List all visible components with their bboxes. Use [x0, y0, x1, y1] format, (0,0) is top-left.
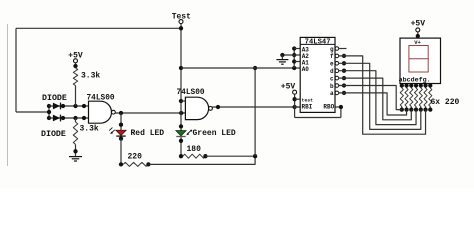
node (junction above ground) [73, 149, 77, 153]
resistor R3 220 [123, 162, 148, 166]
wire (display pin b lead) [406, 84, 408, 89]
pin a bubble (active-low) [335, 91, 339, 95]
node (Green LED cathode junction) [179, 139, 183, 143]
svg-text:d: d [330, 68, 334, 75]
pin g bubble (active-low) [335, 47, 339, 51]
node (resistor R5 top junction) [400, 83, 404, 87]
node (segment d junction) [342, 69, 346, 73]
node (A-input bus at A0) [292, 66, 296, 70]
ground (below R2) [69, 156, 82, 158]
pin c bubble (active-low) [335, 76, 339, 80]
wire (supply to R1) [75, 63, 77, 68]
node (lower row after diode D2) [61, 116, 65, 120]
node (segment e junction) [342, 61, 346, 65]
wire (left vertical feedback wire) [15, 28, 17, 112]
wire (display pin c lead) [410, 84, 412, 89]
node (resistor R8 top junction) [414, 83, 418, 87]
display DS1 7-segment (body) [400, 38, 441, 83]
wire (A1 pin stub) [294, 61, 300, 63]
node (Red LED cathode junction) [119, 136, 123, 140]
svg-text:a: a [330, 90, 334, 97]
op-amp U1 74LS00 NAND gate [89, 101, 112, 123]
node (RBO corner junction) [339, 105, 343, 109]
label Green LED (emission arrow) [187, 131, 190, 134]
wire (lower diode row to R2) [75, 118, 77, 122]
node (gate U1 input B junction) [82, 116, 86, 120]
pin e bubble (active-low) [335, 62, 339, 66]
wire (diode anode bus vertical) [48, 106, 50, 118]
node (junction above display) [416, 34, 420, 38]
svg-text:Green LED: Green LED [193, 129, 236, 138]
wire (R2 to ground) [75, 144, 77, 156]
svg-text:3.3k: 3.3k [80, 125, 99, 134]
LED D4 Green LED [176, 131, 186, 136]
wire (display pin f lead) [425, 84, 427, 89]
wire (R1 to upper diode row) [75, 86, 77, 107]
node (resistor R9 bottom junction) [419, 107, 423, 111]
node (return riser junction) [253, 154, 257, 158]
svg-text:74LS47: 74LS47 [305, 38, 331, 46]
terminal Test (open circle) [179, 20, 183, 24]
svg-text:220: 220 [128, 153, 143, 162]
pin b bubble (active-low) [335, 84, 339, 88]
LED D3 Red LED [116, 130, 126, 135]
node (segment c junction) [342, 76, 346, 80]
diode D2 (lower DIODE) [53, 115, 60, 122]
diode D1 (upper DIODE) [53, 103, 60, 110]
node (A2 junction) [292, 53, 296, 57]
wire (lower diode row to gate U1 input B) [49, 117, 89, 119]
wire (resistor R11 bottom lead) [429, 107, 431, 110]
node (lower row at pull-down R2) [73, 116, 77, 120]
wire (RBO loop right riser) [340, 107, 342, 118]
wire (segment b route to display) [339, 86, 402, 110]
node (U2 input A junction) [179, 99, 183, 103]
resistor R10 220 (segment f) [424, 88, 427, 107]
node (resistor R11 bottom junction) [428, 107, 432, 111]
wire (resistor R5 bottom lead) [401, 107, 403, 110]
node (resistor R10 bottom junction) [423, 107, 427, 111]
svg-text:DIODE: DIODE [42, 94, 67, 103]
pin f bubble (active-low) [335, 54, 339, 58]
node (junction on U2 output) [216, 105, 220, 109]
node (R3 right junction) [146, 162, 150, 166]
node (A3 junction) [292, 46, 296, 50]
svg-text:3.3k: 3.3k [81, 72, 100, 81]
wire (segment f route to display) [339, 56, 426, 134]
wire (resistor R6 bottom lead) [406, 107, 408, 110]
wire (resistor R7 bottom lead) [410, 107, 412, 110]
node (Green LED anode junction) [179, 124, 183, 128]
svg-text:test: test [302, 98, 314, 104]
node (riser joins A0 wire) [253, 66, 257, 70]
wire (resistor R9 bottom lead) [420, 107, 422, 110]
wire (R3 to common return riser) [148, 156, 255, 164]
svg-text:RBO: RBO [323, 104, 334, 111]
wire (RBI pin stub) [295, 106, 301, 108]
node (resistor R8 bottom junction) [414, 107, 418, 111]
wire (top feedback wire from Test node to left edge) [16, 27, 181, 29]
wire (U2 output to 74LS47 RBI) [212, 106, 300, 108]
node (resistor R6 bottom junction) [404, 107, 408, 111]
node (resistor R11 top junction) [428, 83, 432, 87]
resistor R7 220 (segment c) [410, 88, 413, 107]
node (segment a junction) [342, 91, 346, 95]
wire (A2 pin stub and ground wire) [282, 54, 300, 56]
wire (display pin g lead) [429, 84, 431, 89]
node (upper row at pull-up R1) [73, 104, 77, 108]
node (A1 junction) [292, 59, 296, 63]
wire (segment d route to display) [339, 71, 416, 125]
svg-text:f: f [330, 53, 334, 60]
node (U2 input B junction on Test line) [179, 111, 183, 115]
node (diode bus junction top) [47, 104, 51, 108]
svg-text:A0: A0 [302, 66, 310, 73]
node (Red LED tap on U1 output) [119, 111, 123, 115]
svg-text:RBI: RBI [302, 104, 313, 111]
node (R4 left junction) [179, 154, 183, 158]
node (RBI junction at +5V riser) [292, 105, 296, 109]
wire (resistor R10 bottom lead) [425, 107, 427, 110]
node (test pin junction) [292, 97, 296, 101]
wire (U2 input A stub) [181, 100, 185, 102]
wire (segment a route to display) [339, 93, 407, 115]
resistor R4 180 [183, 154, 206, 158]
wire (+5V to display V+) [417, 32, 419, 38]
svg-text:180: 180 [187, 145, 202, 154]
wire (R4 to common return riser) [205, 155, 255, 157]
node (diode bus junction mid) [47, 110, 51, 114]
svg-text:c: c [330, 75, 334, 82]
wire (Green LED to R4) [180, 137, 182, 156]
svg-text:74LS00: 74LS00 [177, 89, 205, 97]
node (junction below +5V terminal) [73, 64, 77, 68]
node (resistor R9 top junction) [419, 83, 423, 87]
wire (display pin d lead) [415, 84, 417, 89]
node (Red LED anode junction) [119, 123, 123, 127]
node (upper row after diode D1) [61, 104, 65, 108]
svg-text:+5V: +5V [411, 20, 426, 29]
svg-text:Red LED: Red LED [131, 129, 165, 138]
wire (ground stem) [281, 55, 283, 60]
node (segment f junction) [342, 54, 346, 58]
wire (U1 output to U2 input B) [115, 112, 185, 114]
wire (upper diode row to gate U1 input A) [49, 105, 89, 107]
node (resistor R7 bottom junction) [409, 107, 413, 111]
resistor R5 220 (segment a) [400, 88, 403, 107]
svg-text:e: e [330, 61, 334, 68]
wire (+5V riser down to RBO loop) [294, 94, 296, 117]
svg-text:abcdefg.: abcdefg. [399, 76, 431, 83]
svg-text:DIODE: DIODE [41, 130, 66, 139]
resistor R11 220 (segment g) [429, 88, 432, 107]
wire (A3 pin stub) [294, 48, 300, 50]
resistor R9 220 (segment e) [419, 88, 422, 107]
resistor R6 220 (segment b) [405, 88, 408, 107]
svg-text:b: b [330, 83, 334, 90]
node (Test joins top feedback wire) [179, 26, 183, 30]
wire (segment e route to display) [339, 63, 421, 129]
node (resistor R10 top junction) [423, 83, 427, 87]
wire (display pin a lead) [401, 84, 403, 89]
node (resistor R6 top junction) [404, 83, 408, 87]
node (segment b junction) [342, 83, 346, 87]
wire (display pin e lead) [420, 84, 422, 89]
wire (common return riser up to A0 line) [254, 68, 256, 156]
svg-text:6x 220: 6x 220 [431, 98, 460, 107]
svg-text:Test: Test [172, 13, 191, 22]
wire (RBO loop back to RBI: bottom run) [295, 117, 341, 119]
wire (test pin stub) [295, 98, 301, 100]
resistor R1 3.3k (pull-up) [73, 68, 77, 86]
wire (A0 input wire from Test bus to 74LS47) [181, 67, 300, 69]
node (Test joins A0 wire) [179, 66, 183, 70]
resistor R8 220 (segment d) [414, 88, 417, 107]
node (gate U1 input A junction) [82, 104, 86, 108]
node (R4 right junction) [203, 154, 207, 158]
wire (faint page-border remnant at left edge) [7, 24, 9, 166]
node (diode bus junction bottom) [47, 116, 51, 120]
pin d bubble (active-low) [335, 69, 339, 73]
wire (Red LED to R3) [120, 139, 122, 165]
wire (segment c route to display) [339, 78, 412, 120]
svg-text:g: g [330, 46, 334, 53]
node (R3 left junction) [119, 162, 123, 166]
wire (A-input tie bus vertical) [293, 49, 295, 69]
node (resistor R5 bottom junction) [400, 107, 404, 111]
label Red LED (emission arrows) [111, 130, 115, 134]
wire (U1 output down to Red LED) [120, 113, 122, 130]
op-amp U2 74LS00 NAND gate [185, 97, 208, 119]
wire (input wire into diode bus) [16, 111, 49, 113]
ground (at 74LS47 inputs) [276, 59, 288, 61]
op-amp U3 74LS47 BCD-to-7seg decoder (body) [300, 37, 335, 112]
resistor R2 3.3k (pull-down) [73, 122, 77, 144]
display DS1 segments (figure 8) [409, 46, 428, 73]
wire (RBO pin stub) [335, 106, 341, 108]
node (ground stem junction) [280, 53, 284, 57]
wire (segment g stub, unconnected) [339, 48, 347, 50]
wire (Test vertical bus) [180, 24, 182, 131]
wire (resistor R8 bottom lead) [415, 107, 417, 110]
node (resistor R7 top junction) [409, 83, 413, 87]
